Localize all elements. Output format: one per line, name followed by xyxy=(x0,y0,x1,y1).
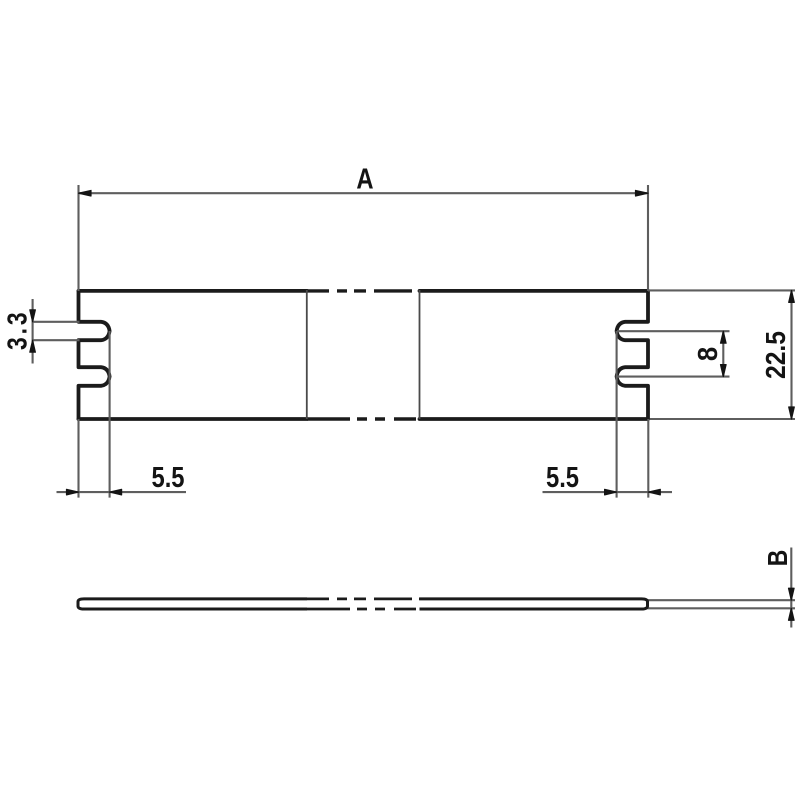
plate bottom edge solid right xyxy=(420,417,649,421)
plate top edge solid left xyxy=(79,289,308,293)
plate bottom edge break dashes xyxy=(307,417,420,420)
extension line 3.3 bottom xyxy=(33,339,80,341)
svg-text:8: 8 xyxy=(692,347,723,361)
arrow B top (points down) xyxy=(789,588,795,600)
arrow 22.5 top (points up) xyxy=(789,290,795,302)
dimension line 5.5 left xyxy=(57,491,187,493)
extension line 8 top (slot1 centerline) xyxy=(617,330,730,332)
extension line 5.5 left outer (plate edge extended) xyxy=(77,419,79,498)
thin extension / dimension lines xyxy=(33,185,795,628)
arrowheads xyxy=(30,190,795,620)
arrow 8 top (points up) xyxy=(721,331,727,343)
extension line B bottom xyxy=(648,607,796,609)
arrow 22.5 bottom (points down) xyxy=(789,407,795,419)
plate top edge solid right xyxy=(420,289,649,293)
extension line B top xyxy=(648,599,796,601)
svg-text:22.5: 22.5 xyxy=(760,331,792,379)
extension line 5.5 right inner (slot tip) xyxy=(616,331,618,498)
break line left vertical xyxy=(306,290,308,419)
dimension line B vertical xyxy=(790,548,792,628)
arrow 5.5 right-right (points left) xyxy=(648,489,660,495)
svg-text:A: A xyxy=(356,162,373,195)
side view bar bottom edge break dashes xyxy=(307,608,420,611)
dimension line 5.5 right xyxy=(543,491,673,493)
dimension line 3.3 vertical xyxy=(32,299,34,364)
arrow 5.5 left-right (points left) xyxy=(110,489,122,495)
side view bar top edge break dashes xyxy=(307,598,420,601)
arrow 5.5 right-left (points right) xyxy=(605,489,617,495)
side view bar outline left half xyxy=(78,599,307,609)
arrow A left xyxy=(79,190,92,196)
break line right vertical xyxy=(419,290,421,419)
extension line 5.5 right outer (plate edge extended) xyxy=(647,419,649,498)
arrow 5.5 left-left (points right) xyxy=(67,489,79,495)
extension line 8 bottom (slot2 centerline) xyxy=(617,376,730,378)
arrow 8 bottom (points down) xyxy=(721,365,727,377)
svg-text:B: B xyxy=(763,550,794,567)
svg-text:3.3: 3.3 xyxy=(2,309,33,350)
extension line 22.5 top xyxy=(648,289,795,291)
side view bar outline right half xyxy=(420,599,648,609)
arrow A right xyxy=(636,190,649,196)
plate outline left portion (top view) xyxy=(79,291,649,419)
svg-text:5.5: 5.5 xyxy=(546,461,579,494)
extension line 5.5 left inner (slot tip) xyxy=(109,331,111,498)
plate right edge with two slots xyxy=(617,291,648,419)
svg-text:5.5: 5.5 xyxy=(151,461,184,494)
extension line A right xyxy=(647,185,649,291)
arrow 3.3 upper (points down) xyxy=(30,310,36,322)
arrow 3.3 lower (points up) xyxy=(30,340,36,352)
plate left edge with two slots xyxy=(79,291,110,419)
plate top edge break dashes xyxy=(307,289,420,292)
extension line 22.5 bottom xyxy=(650,418,795,420)
dimension line 22.5 vertical xyxy=(790,290,792,419)
arrow B bottom (points up) xyxy=(789,608,795,620)
plate bottom edge solid left xyxy=(79,417,308,421)
dimension line 8 vertical xyxy=(722,331,724,376)
extension line A left xyxy=(77,185,79,291)
dimension line A xyxy=(79,192,649,194)
extension line 3.3 top xyxy=(33,321,80,323)
